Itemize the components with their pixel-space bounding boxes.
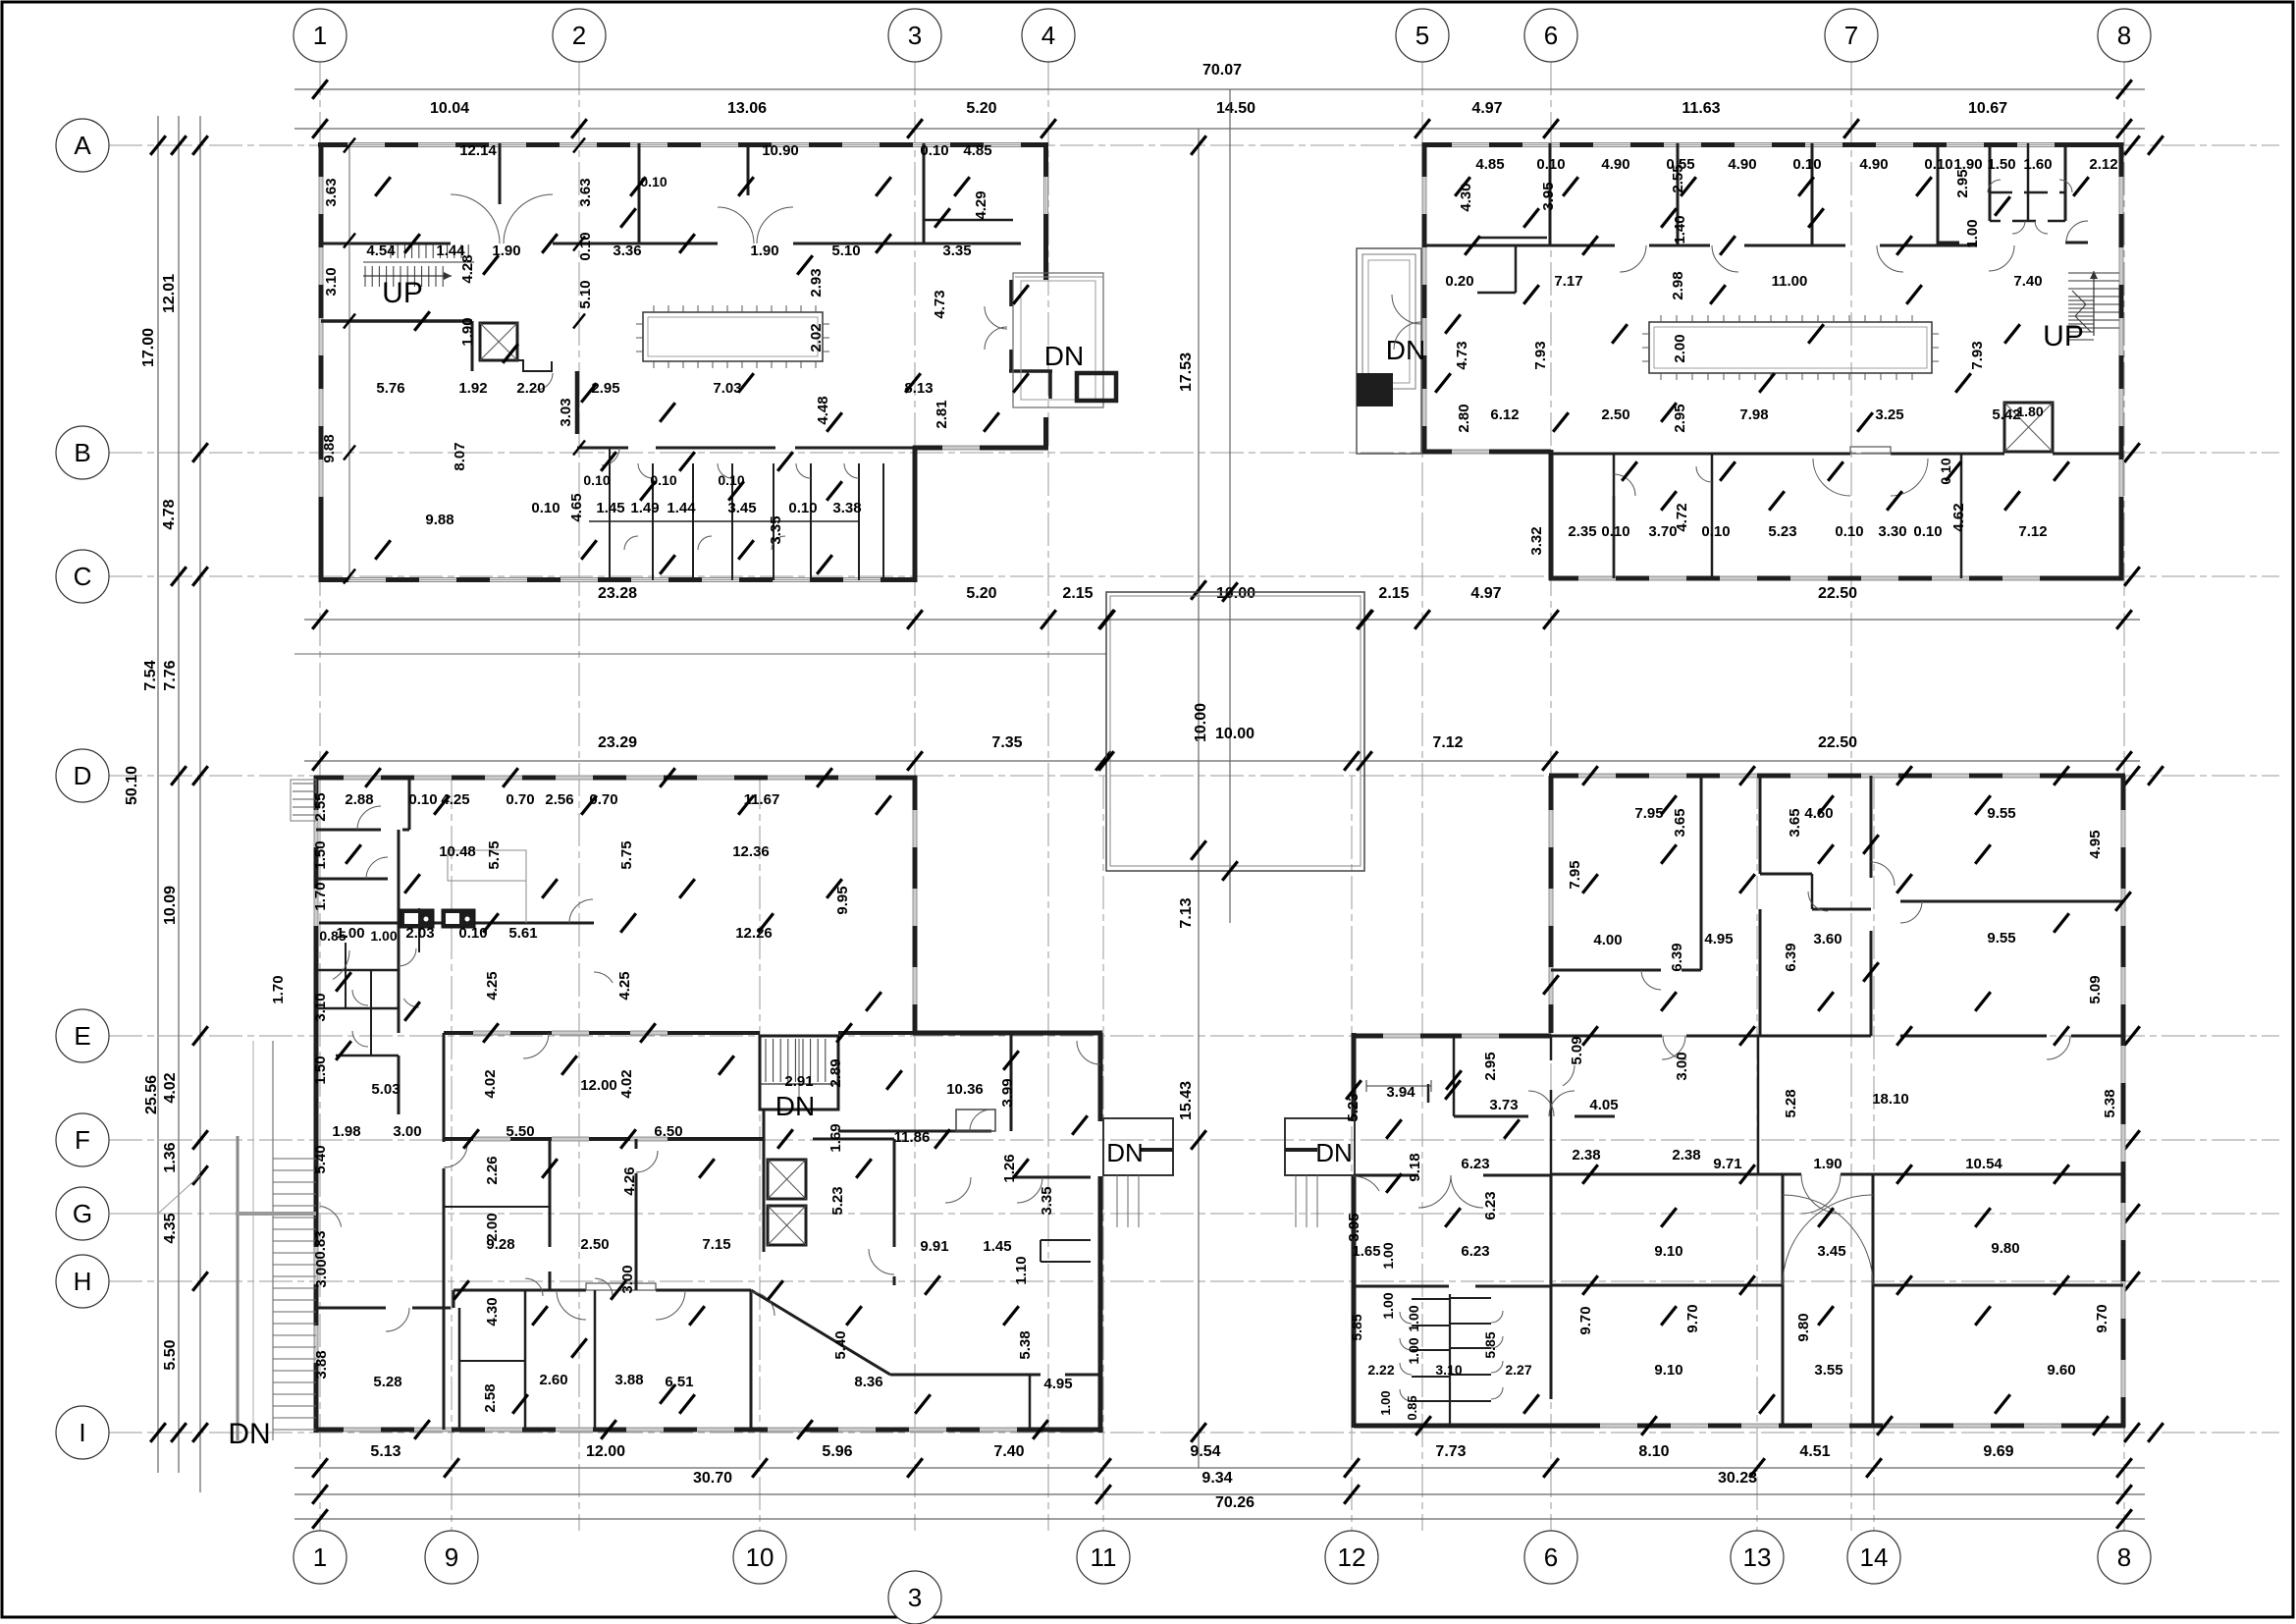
svg-text:4.65: 4.65: [568, 493, 585, 521]
svg-text:10.54: 10.54: [1965, 1156, 2002, 1172]
TR toilets top wall: [1551, 453, 1850, 456]
svg-text:2.55: 2.55: [1670, 164, 1686, 192]
svg-text:0.10: 0.10: [1536, 156, 1565, 173]
svg-text:1: 1: [313, 1543, 327, 1572]
TR elevator: [2004, 403, 2053, 452]
svg-text:8.36: 8.36: [854, 1374, 882, 1390]
svg-text:5.85: 5.85: [1482, 1331, 1498, 1358]
svg-text:4.25: 4.25: [616, 971, 633, 1000]
svg-text:7.93: 7.93: [1969, 341, 1986, 369]
svg-text:7.98: 7.98: [1739, 406, 1768, 423]
svg-text:1.10: 1.10: [1013, 1256, 1030, 1284]
svg-text:9.69: 9.69: [1983, 1443, 2013, 1460]
svg-text:8.10: 8.10: [1638, 1443, 1669, 1460]
svg-text:5.10: 5.10: [577, 280, 594, 308]
svg-text:10.09: 10.09: [162, 886, 179, 925]
grid bubble 10 bottom: [733, 1531, 786, 1584]
BL corridor walls: [443, 1033, 446, 1142]
svg-text:3.10: 3.10: [323, 267, 340, 296]
TL short bold wall 3.03: [575, 371, 580, 434]
svg-text:1.00: 1.00: [1406, 1305, 1421, 1331]
svg-text:1.45: 1.45: [596, 500, 624, 516]
svg-text:1.00: 1.00: [1406, 1337, 1421, 1364]
BR interior top rooms: [1700, 776, 1703, 970]
svg-text:2.03: 2.03: [405, 925, 434, 942]
svg-text:5.85: 5.85: [1349, 1314, 1364, 1340]
gap line below C: [294, 653, 1106, 655]
svg-text:9.70: 9.70: [1684, 1304, 1701, 1332]
svg-text:2.89: 2.89: [828, 1058, 844, 1087]
svg-text:9.60: 9.60: [2047, 1362, 2075, 1379]
svg-text:5.40: 5.40: [312, 1145, 329, 1173]
svg-text:50.10: 50.10: [124, 766, 140, 805]
svg-text:1.50: 1.50: [1987, 156, 2015, 173]
dimension chain top row spans: [294, 128, 2145, 130]
svg-text:4.62: 4.62: [1950, 503, 1967, 531]
svg-text:DN: DN: [775, 1091, 815, 1121]
svg-text:0.10: 0.10: [1924, 156, 1952, 173]
TR vertical walls top band: [1549, 143, 1552, 245]
BL kitchen wall + sinks: [319, 922, 594, 925]
svg-text:0.10: 0.10: [788, 500, 817, 516]
svg-text:3.35: 3.35: [942, 243, 971, 259]
svg-text:6.23: 6.23: [1461, 1156, 1489, 1172]
svg-text:3.94: 3.94: [1386, 1084, 1415, 1101]
svg-text:2.02: 2.02: [808, 323, 825, 352]
svg-text:2.26: 2.26: [484, 1156, 501, 1184]
BL row H walls: [316, 1307, 386, 1310]
svg-text:7.17: 7.17: [1554, 273, 1582, 290]
svg-text:1.00: 1.00: [1380, 1242, 1396, 1269]
svg-text:25.56: 25.56: [143, 1075, 160, 1114]
BL diagonal wall: [751, 1290, 890, 1375]
svg-text:4.90: 4.90: [1601, 156, 1629, 173]
svg-text:30.70: 30.70: [693, 1470, 732, 1487]
svg-text:1.40: 1.40: [1672, 215, 1688, 244]
TR stair UP right: [2068, 272, 2119, 274]
TL interior dim chain x=356: [348, 145, 350, 580]
svg-text:30.23: 30.23: [1718, 1470, 1757, 1487]
svg-text:4.95: 4.95: [1704, 931, 1733, 947]
grid bubble G left: [56, 1187, 109, 1240]
grid bubble 12 bottom: [1325, 1531, 1378, 1584]
svg-text:4.97: 4.97: [1471, 100, 1502, 117]
TL stair UP: [390, 244, 392, 258]
svg-text:0.10: 0.10: [1601, 523, 1629, 540]
svg-text:2.15: 2.15: [1378, 585, 1409, 602]
svg-text:0.10: 0.10: [577, 232, 594, 260]
svg-text:12.00: 12.00: [586, 1443, 625, 1460]
svg-text:7.13: 7.13: [1178, 897, 1195, 928]
svg-text:3.25: 3.25: [1875, 406, 1903, 423]
svg-text:13.06: 13.06: [727, 100, 767, 117]
svg-text:2.38: 2.38: [1572, 1147, 1600, 1164]
svg-text:5.40: 5.40: [832, 1330, 849, 1359]
svg-text:4.00: 4.00: [1593, 932, 1622, 948]
row C dimension chain: [304, 619, 2140, 621]
left dimension chain lines: [157, 116, 159, 1473]
svg-text:5.28: 5.28: [373, 1374, 401, 1390]
svg-text:UP: UP: [382, 277, 423, 309]
svg-text:6: 6: [1544, 21, 1558, 50]
grid bubble B left: [56, 426, 109, 479]
TL elevator lobby step: [517, 360, 552, 371]
svg-text:3.63: 3.63: [577, 178, 594, 206]
svg-text:1.90: 1.90: [750, 243, 778, 259]
svg-text:2.56: 2.56: [545, 791, 573, 808]
svg-text:4.29: 4.29: [973, 190, 989, 219]
BL toilet cells left: [316, 969, 399, 972]
svg-text:3.60: 3.60: [1813, 931, 1842, 947]
svg-text:4: 4: [1041, 21, 1055, 50]
TL door arcs: [451, 194, 500, 244]
bottom chain row 1: [294, 1467, 2145, 1469]
svg-text:10.90: 10.90: [762, 142, 799, 159]
svg-text:12.01: 12.01: [161, 274, 178, 313]
svg-text:3.10: 3.10: [1435, 1362, 1462, 1378]
svg-text:4.25: 4.25: [484, 971, 501, 1000]
svg-text:12.26: 12.26: [735, 925, 773, 942]
grid bubble 4 top: [1022, 9, 1075, 62]
svg-text:E: E: [74, 1021, 90, 1051]
svg-text:3.73: 3.73: [1489, 1097, 1518, 1113]
right end ticks on row lines: [2124, 135, 2140, 155]
svg-text:9.95: 9.95: [834, 886, 851, 914]
svg-text:0.85: 0.85: [1405, 1395, 1419, 1420]
svg-text:H: H: [74, 1267, 92, 1296]
svg-text:4.51: 4.51: [1799, 1443, 1830, 1460]
svg-text:DN: DN: [1106, 1138, 1144, 1167]
BL room divider walls: [549, 1139, 552, 1247]
grid bubble A left: [56, 119, 109, 172]
BR mid dividers: [1550, 1036, 1553, 1060]
TL wall above room 5.76: [321, 319, 472, 323]
svg-text:10: 10: [746, 1543, 774, 1572]
svg-text:9: 9: [445, 1543, 458, 1572]
svg-text:3.45: 3.45: [1817, 1243, 1845, 1260]
dimension chain 70.07 top: [294, 88, 2145, 90]
svg-text:11.86: 11.86: [894, 1129, 931, 1146]
svg-text:4.95: 4.95: [1043, 1376, 1072, 1392]
svg-text:12.36: 12.36: [732, 843, 770, 860]
svg-text:UP: UP: [2043, 320, 2084, 352]
grid bubble H left: [56, 1255, 109, 1308]
grid bubble C left: [56, 550, 109, 603]
BL exterior stair left: [237, 1136, 240, 1440]
svg-text:4.72: 4.72: [1674, 503, 1690, 531]
svg-text:4.54: 4.54: [366, 243, 396, 259]
svg-text:2.91: 2.91: [784, 1073, 813, 1090]
svg-text:4.73: 4.73: [932, 290, 948, 318]
svg-text:9.70: 9.70: [1577, 1306, 1594, 1334]
svg-text:1.00: 1.00: [1378, 1390, 1393, 1415]
svg-text:5.09: 5.09: [2087, 975, 2104, 1003]
svg-text:1.90: 1.90: [459, 317, 476, 346]
svg-text:1.65: 1.65: [1352, 1243, 1380, 1260]
svg-text:DN: DN: [228, 1418, 270, 1450]
svg-text:5.10: 5.10: [831, 243, 860, 259]
svg-text:4.97: 4.97: [1470, 585, 1501, 602]
BR building exterior walls: [1549, 774, 2125, 779]
svg-text:2.60: 2.60: [539, 1372, 567, 1388]
svg-text:9.55: 9.55: [1987, 930, 2015, 947]
svg-text:9.91: 9.91: [920, 1238, 948, 1255]
BL building exterior walls: [314, 776, 917, 781]
bottom chain row 2: [294, 1493, 2145, 1495]
svg-text:7.03: 7.03: [713, 380, 741, 397]
svg-text:6.23: 6.23: [1482, 1191, 1499, 1219]
BL elevators: [768, 1160, 806, 1199]
TR interior wall row1: [1424, 244, 1615, 247]
svg-text:7.35: 7.35: [991, 734, 1022, 751]
grid bubble 14 bottom: [1847, 1531, 1900, 1584]
svg-text:2.27: 2.27: [1505, 1362, 1531, 1378]
svg-text:10.00: 10.00: [1215, 726, 1255, 742]
svg-text:4.85: 4.85: [963, 142, 991, 159]
svg-text:0.10: 0.10: [408, 791, 437, 808]
svg-text:0.10: 0.10: [531, 500, 560, 516]
svg-text:4.95: 4.95: [2087, 830, 2104, 858]
BR left vestibule DN exit: [1285, 1118, 1355, 1175]
TR conference table: [1649, 322, 1932, 373]
svg-text:1.90: 1.90: [1813, 1156, 1842, 1172]
svg-text:4.02: 4.02: [162, 1072, 179, 1103]
svg-text:2: 2: [572, 21, 586, 50]
svg-text:5.76: 5.76: [376, 380, 404, 397]
BL small niche 1.45: [1041, 1239, 1091, 1241]
svg-text:12.00: 12.00: [580, 1077, 617, 1094]
TL interior dim chain x=590: [573, 138, 585, 153]
svg-text:5.20: 5.20: [966, 100, 996, 117]
svg-text:1.92: 1.92: [458, 380, 487, 397]
svg-text:9.70: 9.70: [2094, 1304, 2110, 1332]
grid bubble F left: [56, 1113, 109, 1166]
svg-text:3.95: 3.95: [1540, 182, 1557, 210]
svg-text:4.78: 4.78: [161, 499, 178, 529]
BL door arcs: [357, 806, 381, 830]
TL conference table: [643, 312, 823, 361]
svg-text:3.65: 3.65: [1672, 808, 1688, 837]
svg-text:4.28: 4.28: [459, 254, 476, 283]
svg-text:1.98: 1.98: [332, 1123, 360, 1140]
svg-text:6: 6: [1544, 1543, 1558, 1572]
svg-text:5.38: 5.38: [2102, 1089, 2118, 1117]
grid bubble 13 bottom: [1731, 1531, 1784, 1584]
svg-text:12: 12: [1338, 1543, 1366, 1572]
svg-text:2.50: 2.50: [580, 1236, 609, 1253]
svg-text:0.10: 0.10: [920, 142, 948, 159]
svg-text:5.61: 5.61: [508, 925, 537, 942]
svg-text:2.20: 2.20: [516, 380, 545, 397]
svg-text:2.98: 2.98: [1670, 271, 1686, 299]
svg-text:6.23: 6.23: [1461, 1243, 1489, 1260]
svg-text:C: C: [74, 562, 92, 591]
svg-text:5.75: 5.75: [486, 840, 503, 869]
svg-text:3.03: 3.03: [558, 398, 574, 426]
svg-text:4.48: 4.48: [815, 396, 831, 424]
grid bubble 9 bottom: [425, 1531, 478, 1584]
BL right rooms walls: [838, 1130, 991, 1133]
svg-text:17.00: 17.00: [140, 328, 157, 367]
svg-text:4.90: 4.90: [1859, 156, 1888, 173]
svg-text:3.55: 3.55: [1814, 1362, 1842, 1379]
svg-text:4.85: 4.85: [1475, 156, 1504, 173]
TL interior wall row1: [321, 243, 451, 245]
svg-text:23.28: 23.28: [598, 585, 637, 602]
BR toilets: [1449, 1294, 1451, 1426]
svg-text:1: 1: [313, 21, 327, 50]
svg-text:0.10: 0.10: [1792, 156, 1821, 173]
TL building exterior walls: [318, 142, 1048, 147]
grid bubble 5 top: [1396, 9, 1449, 62]
svg-text:10.67: 10.67: [1968, 100, 2007, 117]
svg-text:9.10: 9.10: [1654, 1362, 1682, 1379]
svg-text:0.10: 0.10: [650, 472, 676, 488]
TR building exterior walls: [1422, 142, 2123, 147]
svg-text:5.38: 5.38: [1017, 1330, 1034, 1359]
grid bubble 2 top: [553, 9, 606, 62]
TL toilets top wall: [577, 447, 628, 450]
svg-text:DN: DN: [1386, 335, 1425, 365]
svg-text:2.58: 2.58: [482, 1383, 499, 1412]
svg-text:3: 3: [908, 21, 922, 50]
grid bubble D left: [56, 749, 109, 802]
svg-text:7.15: 7.15: [702, 1236, 730, 1253]
courtyard square: [1106, 592, 1364, 871]
svg-text:10.00: 10.00: [1193, 703, 1209, 742]
svg-text:3.35: 3.35: [1039, 1186, 1055, 1215]
svg-text:3.00: 3.00: [393, 1123, 421, 1140]
svg-text:9.80: 9.80: [1991, 1240, 2019, 1257]
svg-text:18.10: 18.10: [1872, 1091, 1909, 1108]
grid bubble 11 bottom: [1077, 1531, 1130, 1584]
svg-text:1.70: 1.70: [312, 882, 329, 910]
svg-text:5.20: 5.20: [966, 585, 996, 602]
svg-text:6.50: 6.50: [654, 1123, 682, 1140]
svg-text:3.32: 3.32: [1528, 526, 1545, 555]
svg-text:B: B: [74, 438, 90, 467]
BL right vestibule DN exit: [1103, 1118, 1173, 1175]
svg-text:8: 8: [2117, 21, 2131, 50]
svg-text:3.99: 3.99: [999, 1078, 1016, 1107]
svg-text:7.95: 7.95: [1567, 860, 1583, 889]
BL scattered ticks: [365, 768, 381, 787]
grid bubble 7 top: [1825, 9, 1878, 62]
svg-text:7.95: 7.95: [1634, 805, 1663, 822]
svg-text:9.88: 9.88: [321, 434, 338, 462]
svg-text:7.12: 7.12: [1432, 734, 1463, 751]
svg-text:3.36: 3.36: [613, 243, 641, 259]
row D dimension chain: [304, 760, 2140, 762]
BL left small rooms: [316, 829, 381, 832]
svg-text:7.40: 7.40: [993, 1443, 1024, 1460]
svg-text:5.50: 5.50: [506, 1123, 534, 1140]
svg-text:9.55: 9.55: [1987, 805, 2015, 822]
svg-text:3.35: 3.35: [768, 515, 784, 544]
svg-text:11.00: 11.00: [1772, 273, 1808, 290]
svg-text:5.09: 5.09: [1569, 1036, 1585, 1064]
BR hall divider: [1757, 1036, 1760, 1174]
svg-text:11.63: 11.63: [1682, 100, 1720, 117]
svg-text:1.45: 1.45: [983, 1238, 1011, 1255]
svg-text:10.48: 10.48: [439, 843, 476, 860]
grid bubble 3 bottom: [888, 1571, 941, 1624]
svg-text:9.71: 9.71: [1713, 1156, 1741, 1172]
svg-text:2.80: 2.80: [1456, 404, 1472, 432]
svg-text:6.39: 6.39: [1669, 943, 1685, 971]
BR scattered ticks: [1582, 766, 1598, 785]
BR corridor wall row E: [1551, 1035, 1662, 1038]
TR scattered ticks: [1465, 236, 1480, 255]
TL right vestibule DN stair: [1009, 280, 1013, 306]
svg-text:3.63: 3.63: [323, 178, 340, 206]
bottom chain row 3 70.26: [294, 1518, 2145, 1520]
svg-text:5.96: 5.96: [822, 1443, 852, 1460]
svg-text:0.10: 0.10: [1701, 523, 1730, 540]
svg-text:7.73: 7.73: [1435, 1443, 1466, 1460]
svg-text:3.38: 3.38: [832, 500, 861, 516]
TL scattered ticks: [404, 234, 420, 253]
svg-text:1.50: 1.50: [312, 840, 329, 869]
svg-text:13: 13: [1743, 1543, 1772, 1572]
svg-text:15.43: 15.43: [1178, 1081, 1195, 1120]
BR door arcs: [1641, 970, 1661, 990]
svg-text:DN: DN: [1315, 1138, 1353, 1167]
svg-text:2.50: 2.50: [1601, 406, 1629, 423]
svg-text:1.50: 1.50: [312, 1056, 329, 1084]
svg-text:0.10: 0.10: [1913, 523, 1942, 540]
BL internal stair DN: [760, 1036, 838, 1110]
svg-text:3.00: 3.00: [313, 1259, 330, 1287]
svg-text:1.26: 1.26: [1001, 1154, 1018, 1182]
svg-text:2.55: 2.55: [312, 792, 329, 821]
svg-text:2.00: 2.00: [484, 1213, 501, 1241]
svg-text:1.00: 1.00: [370, 928, 397, 944]
TR left vestibule DN stair: [1357, 248, 1421, 454]
svg-text:5.23: 5.23: [829, 1186, 846, 1215]
svg-text:4.73: 4.73: [1454, 341, 1470, 369]
svg-text:0.10: 0.10: [583, 472, 610, 488]
svg-text:9.88: 9.88: [425, 512, 454, 528]
svg-text:0.20: 0.20: [1445, 273, 1473, 290]
svg-text:0.10: 0.10: [1835, 523, 1863, 540]
grid bubble 8 bottom: [2098, 1531, 2151, 1584]
svg-text:1.36: 1.36: [162, 1142, 179, 1172]
svg-text:0.10: 0.10: [458, 925, 487, 942]
svg-text:DN: DN: [1044, 341, 1084, 371]
svg-text:7.40: 7.40: [2013, 273, 2042, 290]
grid bubble 6 top: [1524, 9, 1577, 62]
BL top-left small exterior stair: [293, 783, 316, 785]
svg-text:23.29: 23.29: [598, 734, 637, 751]
svg-text:2.95: 2.95: [1954, 169, 1971, 197]
svg-text:9.18: 9.18: [1407, 1153, 1423, 1181]
svg-text:3.88: 3.88: [313, 1350, 330, 1379]
svg-text:1.00: 1.00: [1380, 1292, 1396, 1319]
svg-text:1.00: 1.00: [1964, 219, 1981, 247]
svg-text:F: F: [75, 1125, 90, 1155]
grid bubble 1 top: [294, 9, 347, 62]
BR row F wall: [1551, 1173, 1801, 1176]
grid bubble I left: [56, 1406, 109, 1459]
svg-text:0.85: 0.85: [319, 928, 346, 944]
svg-text:6.51: 6.51: [665, 1374, 693, 1390]
svg-text:3.10: 3.10: [312, 993, 329, 1021]
svg-text:D: D: [74, 761, 92, 790]
svg-text:4.02: 4.02: [482, 1069, 499, 1098]
svg-text:4.35: 4.35: [162, 1213, 179, 1243]
svg-text:2.35: 2.35: [1568, 523, 1596, 540]
